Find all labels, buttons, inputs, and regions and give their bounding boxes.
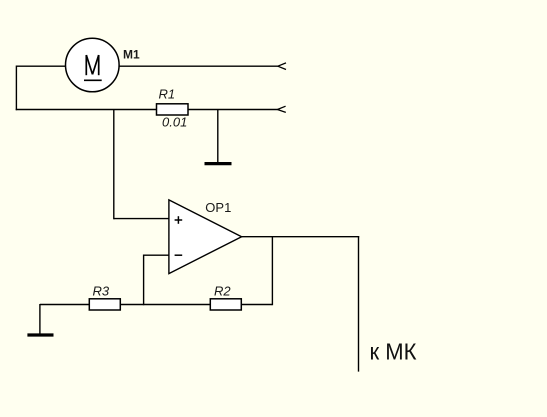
ground (below R1) xyxy=(205,162,232,165)
wire: R1 right lead to connector xyxy=(188,109,278,111)
wire: - input down to feedback node xyxy=(143,255,145,306)
ground (bottom left) xyxy=(39,304,41,334)
svg-text:R2: R2 xyxy=(214,283,231,298)
svg-text:M1: M1 xyxy=(123,48,140,62)
resistor R1 xyxy=(157,104,189,115)
connector fork (shunt wire) xyxy=(277,106,285,112)
svg-text:R1: R1 xyxy=(159,87,176,102)
resistor R2 xyxy=(210,299,241,310)
connector fork (top wire) xyxy=(278,63,286,70)
wire: shunt row horizontal (node between motor and R1) xyxy=(16,109,157,111)
wire: left vertical bus xyxy=(15,66,17,111)
svg-text:к МК: к МК xyxy=(370,339,417,365)
op-amp - input mark xyxy=(175,254,183,256)
wire: output down to MCU xyxy=(358,236,360,372)
svg-text:0.01: 0.01 xyxy=(162,114,187,129)
wire: R2 right lead to feedback vertical xyxy=(241,304,272,306)
motor M glyph xyxy=(84,55,102,80)
svg-text:R3: R3 xyxy=(93,283,110,298)
wire: feedback vertical from output xyxy=(271,237,273,306)
wire: shunt node down to ground xyxy=(217,110,219,164)
wire: R3 to R2 (inverting node) xyxy=(120,304,210,306)
resistor R3 xyxy=(89,299,120,310)
op-amp + input mark xyxy=(175,216,183,224)
wire: motor left lead xyxy=(16,65,66,67)
wire: - input horizontal xyxy=(144,254,169,256)
wire: op-amp output horizontal xyxy=(242,236,360,238)
svg-text:OP1: OP1 xyxy=(205,200,231,215)
wire: + input horizontal xyxy=(114,218,169,220)
motor M1 circle xyxy=(66,38,120,92)
wire: ground to R3 xyxy=(40,304,89,306)
op-amp U1 (OP1) triangle xyxy=(169,200,242,274)
wire: from shunt node down to op-amp + input xyxy=(113,110,115,220)
wire: motor right lead to connector xyxy=(120,65,279,67)
